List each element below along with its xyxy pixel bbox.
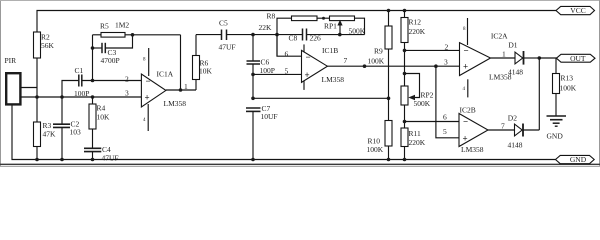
wire pin5 IC2B from signal bbox=[436, 58, 459, 138]
resistor R10 100K bbox=[367, 98, 393, 161]
svg-text:1M2: 1M2 bbox=[115, 21, 129, 30]
svg-text:226: 226 bbox=[310, 34, 322, 43]
op-amp IC2B bbox=[459, 105, 488, 154]
svg-text:5: 5 bbox=[285, 67, 289, 76]
svg-text:C5: C5 bbox=[219, 19, 228, 28]
resistor R8 22K bbox=[259, 12, 330, 33]
potentiometer RP1 500K bbox=[324, 16, 366, 36]
svg-text:2: 2 bbox=[125, 75, 129, 84]
svg-text:1: 1 bbox=[502, 50, 506, 59]
svg-text:−: − bbox=[306, 52, 311, 62]
svg-text:OUT: OUT bbox=[570, 54, 586, 63]
svg-text:10K: 10K bbox=[97, 113, 111, 122]
svg-text:4148: 4148 bbox=[508, 68, 523, 77]
wire OUT node bbox=[538, 56, 557, 60]
wire pin5 IC1B bbox=[253, 67, 302, 76]
VCC flag bbox=[556, 6, 595, 15]
svg-text:C8: C8 bbox=[289, 34, 298, 43]
svg-text:47K: 47K bbox=[43, 130, 57, 139]
GND flag bbox=[556, 155, 595, 164]
wire PIR source node (pin 3 net) bbox=[21, 95, 142, 99]
svg-text:LM358: LM358 bbox=[164, 99, 187, 108]
op-amp IC2A bbox=[460, 32, 512, 82]
resistor R11 220K bbox=[401, 120, 426, 162]
capacitor C5 47UF bbox=[196, 19, 236, 52]
svg-text:−: − bbox=[463, 117, 468, 127]
svg-text:R12: R12 bbox=[409, 18, 422, 27]
PIR sensor bbox=[5, 56, 21, 104]
svg-text:5: 5 bbox=[443, 127, 447, 136]
node pin2 feedback junction bbox=[91, 35, 95, 82]
wire R8 branch vertical bbox=[277, 18, 292, 56]
svg-text:VCC: VCC bbox=[570, 6, 585, 15]
svg-text:220K: 220K bbox=[409, 27, 426, 36]
wire reference node y98 bbox=[253, 97, 390, 101]
resistor R2 56K bbox=[34, 32, 55, 97]
wire pin6 IC1B bbox=[277, 35, 302, 59]
svg-text:3: 3 bbox=[125, 89, 129, 98]
svg-text:IC2A: IC2A bbox=[491, 32, 508, 41]
svg-text:D1: D1 bbox=[508, 41, 517, 50]
svg-text:PIR: PIR bbox=[5, 56, 17, 65]
svg-text:500K: 500K bbox=[414, 99, 431, 108]
svg-text:R11: R11 bbox=[409, 129, 421, 138]
capacitor C8 226 bbox=[289, 29, 322, 43]
svg-text:+: + bbox=[305, 70, 310, 80]
wire feedback to output bbox=[180, 35, 182, 90]
wire pin2 IC2A bbox=[403, 43, 460, 53]
wire VCC rail bbox=[37, 11, 556, 33]
svg-text:D2: D2 bbox=[508, 114, 517, 123]
svg-text:+: + bbox=[145, 93, 150, 103]
pin 4 stub IC2A bbox=[463, 79, 468, 97]
svg-text:IC1A: IC1A bbox=[157, 70, 174, 79]
resistor R6 10K bbox=[193, 35, 213, 90]
svg-text:100K: 100K bbox=[368, 57, 385, 66]
svg-text:47UF: 47UF bbox=[102, 154, 119, 163]
pin 4 stub IC1A bbox=[143, 104, 148, 131]
svg-text:+: + bbox=[463, 134, 468, 144]
resistor R9 100K bbox=[368, 9, 393, 99]
svg-text:100K: 100K bbox=[367, 145, 384, 154]
resistor R4 10K bbox=[89, 97, 110, 148]
svg-text:R5: R5 bbox=[100, 22, 109, 31]
svg-text:+: + bbox=[463, 62, 468, 72]
capacitor C4 47UF bbox=[84, 145, 119, 163]
svg-text:100K: 100K bbox=[560, 84, 577, 93]
wire IC1A output bbox=[166, 82, 196, 92]
svg-text:100P: 100P bbox=[260, 66, 275, 75]
wire IC1B output pin 7 bbox=[327, 56, 459, 68]
svg-text:C1: C1 bbox=[75, 66, 84, 75]
ground symbol bbox=[547, 116, 567, 141]
op-amp IC1B bbox=[302, 46, 345, 84]
svg-text:4148: 4148 bbox=[508, 141, 523, 150]
op-amp IC1A bbox=[141, 70, 186, 109]
wire pin6 IC2B bbox=[405, 113, 460, 122]
svg-text:7: 7 bbox=[501, 122, 505, 131]
capacitor C3 4700P bbox=[91, 33, 135, 65]
svg-text:10UF: 10UF bbox=[261, 112, 278, 121]
svg-text:1: 1 bbox=[184, 82, 188, 91]
svg-text:22K: 22K bbox=[259, 23, 273, 32]
svg-text:4700P: 4700P bbox=[101, 56, 120, 65]
svg-text:7: 7 bbox=[344, 56, 348, 65]
diode D2 4148 bbox=[488, 114, 539, 150]
svg-text:220K: 220K bbox=[409, 138, 426, 147]
diode D1 4148 bbox=[491, 41, 540, 77]
resistor R12 220K bbox=[401, 9, 426, 86]
pin 8 stub IC2A bbox=[463, 18, 468, 45]
pin 3 label bbox=[125, 89, 129, 98]
svg-text:103: 103 bbox=[70, 128, 82, 137]
border frame bbox=[0, 0, 600, 167]
capacitor C2 103 bbox=[53, 97, 81, 161]
potentiometer RP2 500K bbox=[401, 72, 434, 128]
svg-text:LM358: LM358 bbox=[461, 145, 484, 154]
pin 4 stub IC1B bbox=[303, 81, 305, 90]
wire D2 to OUT node bbox=[538, 58, 540, 130]
svg-text:−: − bbox=[464, 46, 469, 56]
resistor R13 100K bbox=[553, 58, 577, 116]
svg-text:R8: R8 bbox=[267, 12, 276, 21]
svg-text:6: 6 bbox=[285, 50, 289, 59]
wire W2 node line bbox=[227, 33, 365, 37]
svg-text:10K: 10K bbox=[199, 67, 213, 76]
pin 8 stub IC1B bbox=[303, 44, 305, 52]
svg-text:6: 6 bbox=[443, 113, 447, 122]
svg-text:3: 3 bbox=[444, 58, 448, 67]
node pin5 junction bbox=[251, 73, 255, 77]
resistor R5 1M2 bbox=[93, 21, 181, 38]
capacitor C7 10UF bbox=[246, 97, 278, 162]
svg-text:GND: GND bbox=[570, 155, 587, 164]
svg-text:RP1: RP1 bbox=[324, 22, 337, 31]
svg-text:100P: 100P bbox=[74, 89, 89, 98]
svg-text:56K: 56K bbox=[41, 41, 55, 50]
pin 8 stub IC1A bbox=[143, 48, 149, 76]
pin 2 label bbox=[125, 75, 129, 84]
svg-text:−: − bbox=[146, 76, 151, 86]
svg-text:R9: R9 bbox=[374, 47, 383, 56]
svg-text:IC1B: IC1B bbox=[322, 46, 338, 55]
svg-text:R4: R4 bbox=[97, 104, 106, 113]
wire GND rail bbox=[12, 105, 556, 160]
wire PIR drain to R2 bbox=[21, 87, 38, 89]
svg-text:2: 2 bbox=[445, 43, 449, 52]
svg-text:500K: 500K bbox=[349, 27, 366, 36]
capacitor C6 100P bbox=[247, 35, 275, 99]
OUT flag bbox=[556, 54, 595, 63]
svg-text:LM358: LM358 bbox=[322, 75, 345, 84]
svg-text:IC2B: IC2B bbox=[460, 105, 476, 114]
svg-text:47UF: 47UF bbox=[219, 43, 236, 52]
svg-text:GND: GND bbox=[547, 132, 564, 141]
svg-text:R13: R13 bbox=[561, 74, 574, 83]
resistor R3 47K bbox=[34, 97, 57, 161]
capacitor C1 100P bbox=[62, 66, 141, 98]
